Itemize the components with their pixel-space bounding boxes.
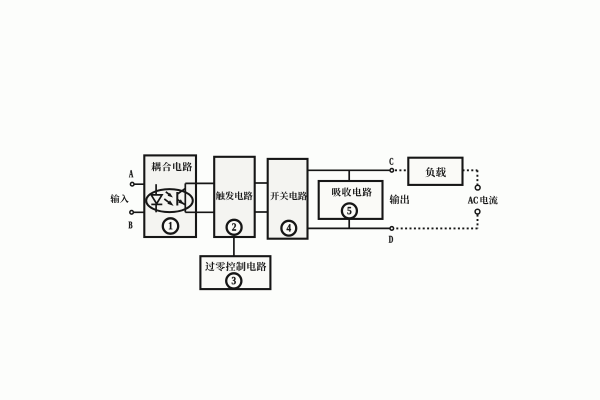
circled number 5 [342,203,357,218]
node B terminal circle [130,211,134,215]
node AC meter top circle [475,185,480,190]
phototransistor Q1 emitter with arrowhead [177,199,185,205]
label 开关电路 [270,191,307,200]
label 触发电路 [216,191,253,200]
node A terminal circle [130,182,134,186]
label C [389,158,393,165]
light arrow 1 [166,192,173,198]
wire: snubber bottom connector [348,219,350,229]
phototransistor Q1 base bar [176,192,178,206]
LED D1 anode lead [155,184,157,195]
label D [389,236,393,243]
block U5 snubber circuit box 吸收电路 [319,181,383,219]
block U1 coupling circuit box 耦合电路 [144,155,196,237]
node C terminal circle [390,169,394,173]
block load box 负载 [408,158,462,185]
wire: dotted C to load [395,169,408,171]
LED D1 cathode bar [151,203,162,205]
node D terminal circle [390,227,394,231]
block U2 trigger circuit box 触发电路 [214,157,255,237]
label AC 电流 [468,196,498,205]
wire: box4 to terminal D (bottom output rail) [308,227,391,229]
wire: box2 to box4 top [255,182,268,184]
wire: box2 down to box3 [233,237,235,256]
optocoupler ellipse [146,189,193,212]
label 输入 (input) [110,194,128,203]
wire: optocoupler output vertical bus [184,183,186,212]
wire: box1 to box2 top [185,182,214,184]
phototransistor Q1 collector [177,188,185,194]
circled number 1 [163,218,178,233]
label 负载 [425,167,446,177]
label 耦合电路 [151,162,192,171]
node AC meter bottom circle [475,209,480,214]
wire: input terminal A lead [134,183,157,185]
label 过零控制电路 [205,262,266,271]
wire: dotted right side down to ammeter top [476,170,478,184]
wire: box4 to terminal C (top output rail) [308,169,391,171]
light arrow 2 [164,199,173,206]
LED D1 cathode lead [155,204,157,212]
label B [129,222,133,229]
circled number 4 [281,221,296,236]
label 吸收电路 [332,187,372,196]
wire: box2 to box4 bottom [255,211,268,213]
wire: snubber top connector [348,170,350,181]
circled number 3 [226,273,241,288]
wire: dotted bottom back to terminal D [395,227,478,229]
wire: input terminal B lead [134,211,157,213]
block U4 switch circuit box 开关电路 [268,159,308,239]
label 输出 (output) [390,194,410,204]
circled number 2 [227,220,242,235]
wire: dotted load to right corner [463,169,478,171]
block U3 zero-crossing control box 过零控制电路 [200,256,270,289]
label A [129,170,133,177]
wire: box1 to box2 bottom [185,211,214,213]
LED D1 triangle [151,195,162,204]
wire: dotted right side down from ammeter [477,215,479,229]
